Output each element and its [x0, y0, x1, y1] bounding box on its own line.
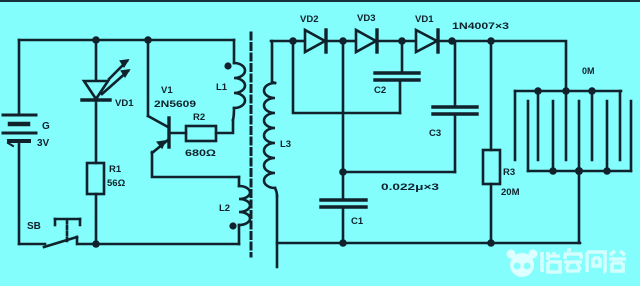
capacitor C2: [375, 41, 419, 113]
wire output top to grid corner: [452, 41, 566, 91]
switch SB blade and contacts: [44, 237, 77, 247]
wire bottom-left to switch contact: [19, 243, 45, 246]
wire grid bottom rail to bottom wire: [578, 171, 581, 243]
wire R2 to L1 bottom: [216, 120, 233, 133]
svg-text:0.022μ×3: 0.022μ×3: [381, 182, 439, 193]
svg-text:V1: V1: [161, 85, 173, 96]
node junction collector top: [144, 36, 152, 44]
transformer core dashed: [250, 33, 253, 256]
node diode row 2: [339, 37, 347, 45]
wire VD2 cathode down to C1: [342, 41, 345, 200]
svg-text:VD3: VD3: [357, 13, 375, 24]
grid hanging fingers: [515, 91, 620, 160]
svg-text:56Ω: 56Ω: [107, 178, 126, 189]
svg-text:G: G: [42, 121, 50, 132]
node diode row 1: [289, 37, 297, 45]
node C1 top / C3 bottom wire: [339, 168, 347, 176]
polarity dot L1: [224, 62, 231, 69]
svg-text:VD2: VD2: [300, 14, 318, 25]
wire top-left horizontal battery+ to transformer: [19, 39, 234, 42]
wire L3 top to diode node: [271, 40, 293, 43]
svg-text:C3: C3: [429, 128, 441, 139]
svg-text:SB: SB: [27, 221, 41, 232]
winding L2: [239, 177, 250, 244]
svg-text:VD1: VD1: [115, 98, 134, 109]
svg-text:20M: 20M: [501, 187, 520, 198]
node grid feed top: [562, 87, 570, 95]
resistor R3: [483, 41, 500, 243]
svg-text:C1: C1: [351, 216, 364, 227]
svg-text:R2: R2: [193, 112, 205, 123]
wire collector vertical from top wire: [147, 40, 150, 116]
polarity dot L2: [229, 222, 236, 229]
switch SB actuator bracket with dashed stem: [55, 219, 80, 241]
svg-text:680Ω: 680Ω: [185, 148, 217, 159]
svg-text:VD1: VD1: [415, 14, 434, 25]
svg-text:1N4007×3: 1N4007×3: [452, 21, 509, 32]
LED VD1: [82, 60, 129, 100]
wire C1 top node to C3 bottom: [343, 171, 455, 174]
diode VD3: [343, 30, 402, 52]
node grid bottom 2: [603, 167, 611, 175]
svg-text:R3: R3: [503, 167, 515, 178]
node grid finger top 2: [588, 87, 596, 95]
resistor R2: [186, 126, 216, 141]
wire VD2 anode down to C2 bottom: [293, 41, 400, 113]
svg-text:R1: R1: [109, 164, 122, 175]
winding L3: [264, 41, 277, 196]
wire L3 bottom stub through bottom rail: [276, 196, 279, 267]
svg-text:L1: L1: [216, 82, 228, 93]
diode VD4: [402, 30, 452, 52]
node diode row 3: [398, 37, 406, 45]
wire base to R2: [170, 132, 186, 135]
transistor V1 2N5609: [148, 116, 169, 153]
node R3 bottom: [487, 239, 495, 247]
capacitor C3: [433, 41, 477, 172]
svg-text:3V: 3V: [37, 138, 50, 149]
node junction LED/R1 branch bottom: [92, 240, 100, 248]
node junction LED branch top: [92, 36, 100, 44]
svg-text:0M: 0M: [582, 66, 595, 76]
svg-text:L2: L2: [219, 203, 230, 214]
resistor R1: [87, 163, 104, 194]
diode VD2: [293, 30, 343, 52]
wire R1 to bottom junction: [95, 194, 98, 244]
grid top rail: [515, 90, 621, 93]
grid bottom rail: [528, 170, 631, 173]
svg-text:2N5609: 2N5609: [154, 99, 196, 110]
wire bottom-left from switch to L2 bottom: [79, 243, 239, 246]
node grid bottom 1: [549, 167, 557, 175]
node grid bottom feed: [575, 167, 583, 175]
node C1 bottom: [339, 239, 347, 247]
node diode output: [448, 37, 456, 45]
watermark wukong logo: [507, 250, 538, 278]
capacitor C1: [321, 200, 366, 243]
svg-text:C2: C2: [374, 85, 386, 96]
winding L1: [233, 40, 245, 120]
wire bottom rail right section: [277, 242, 580, 245]
wire left vertical battery top: [18, 40, 21, 115]
node R3 top: [487, 37, 495, 45]
scan top edge dark line: [0, 0, 640, 2]
wire left vertical battery bottom to switch: [18, 141, 21, 244]
node grid finger top 1: [534, 87, 542, 95]
battery G 3V: [3, 115, 36, 146]
wire LED to R1: [95, 100, 98, 163]
svg-text:L3: L3: [280, 139, 291, 150]
wire LED branch vertical from top wire: [95, 40, 98, 81]
wire emitter down and across to L2: [152, 152, 239, 177]
watermark text wukong wenda: [542, 250, 626, 272]
grid rising fingers: [528, 101, 631, 171]
